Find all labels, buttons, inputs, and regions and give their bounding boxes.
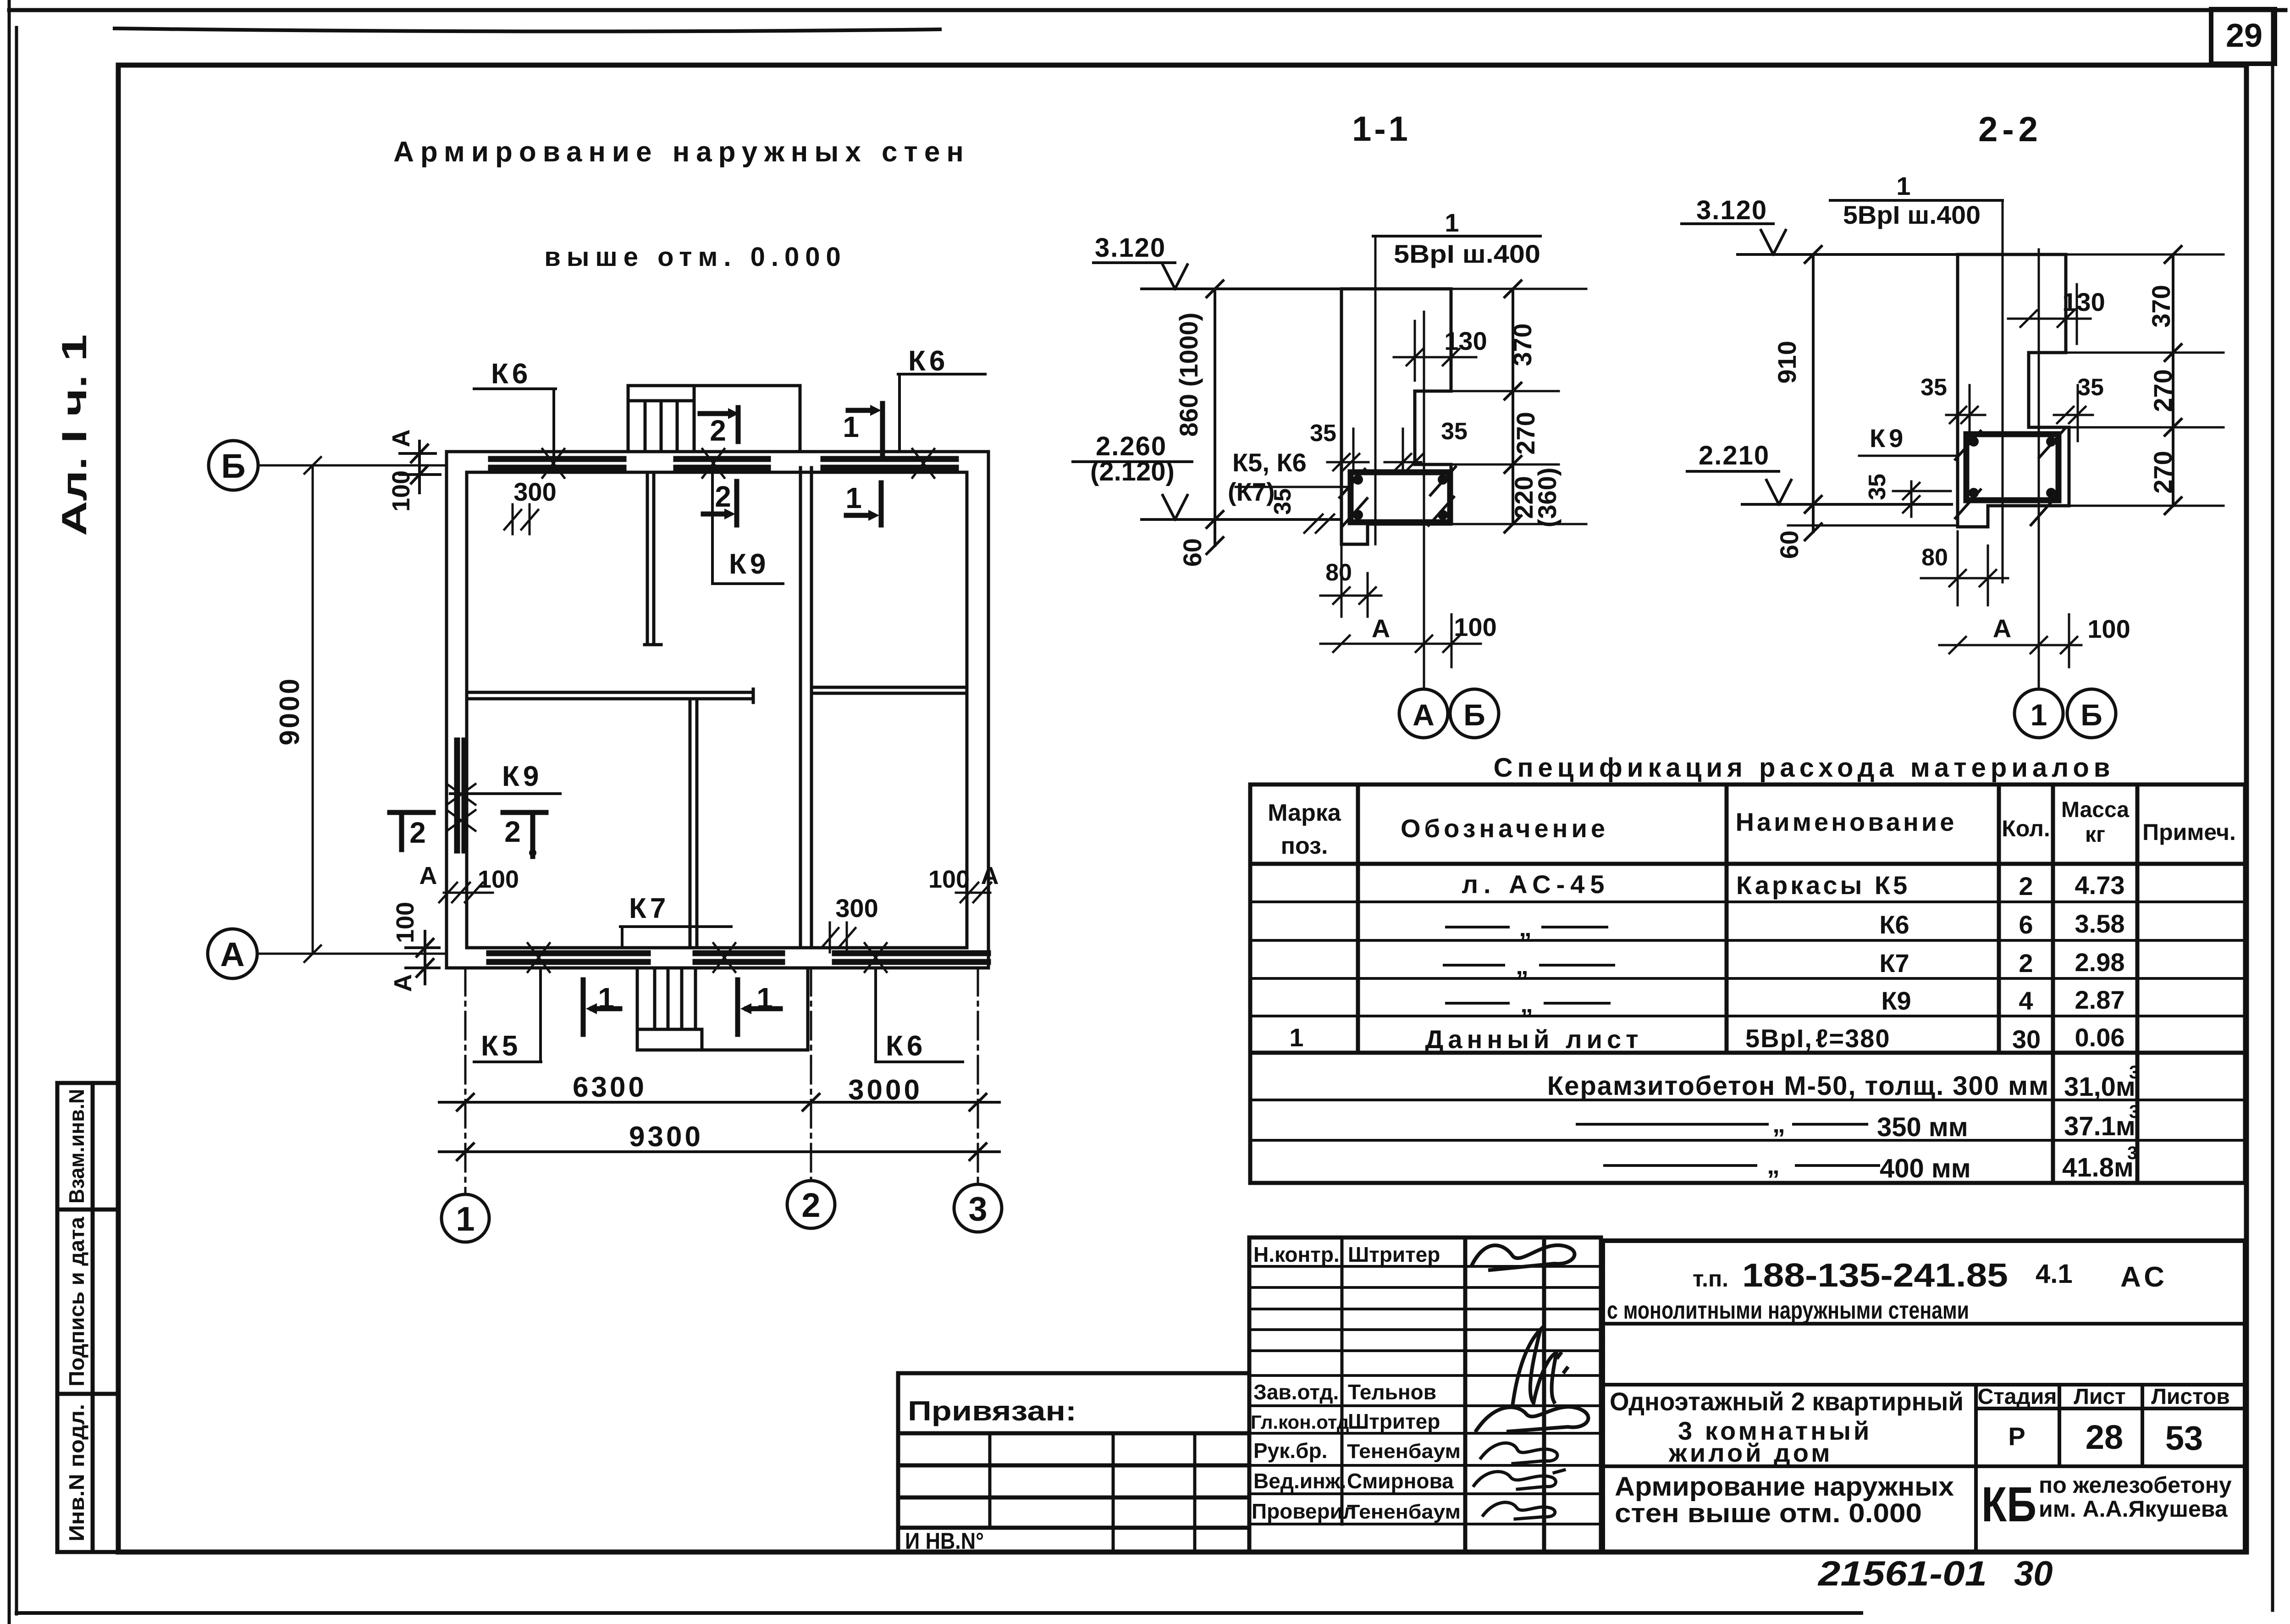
svg-text:100: 100 (387, 470, 415, 512)
svg-text:1: 1 (1445, 208, 1459, 237)
svg-text:Одноэтажный 2 квартирный: Одноэтажный 2 квартирный (1610, 1387, 1964, 1416)
svg-text:3.120: 3.120 (1696, 195, 1767, 225)
svg-text:Армирование наружных стен: Армирование наружных стен (393, 136, 970, 168)
section mark 1 bottom right (738, 980, 780, 1034)
svg-text:(360): (360) (1533, 468, 1562, 528)
svg-text:К9: К9 (729, 548, 769, 580)
svg-text:К7: К7 (629, 893, 669, 924)
section mark 2 top inside (703, 481, 737, 525)
svg-text:2: 2 (801, 1186, 820, 1224)
row 2 ditto / К6 / 6 / 3.58 (1446, 926, 1607, 928)
svg-text:Спецификация расхода материало: Спецификация расхода материалов (1494, 753, 2115, 783)
wall section outline 1-1 (1341, 289, 1451, 544)
bottom porch box (637, 968, 808, 1050)
top porch box (628, 386, 800, 452)
label K9 left (450, 761, 560, 794)
svg-text:300: 300 (835, 894, 878, 922)
left dim chain 1-1 (1207, 281, 1223, 554)
axis circle 3 (954, 1184, 1002, 1232)
svg-text:130: 130 (1444, 326, 1487, 355)
svg-text:Н.контр.: Н.контр. (1253, 1243, 1340, 1266)
svg-text:А: А (1372, 614, 1390, 643)
svg-text:Б: Б (1463, 698, 1485, 732)
svg-text:Стадия: Стадия (1978, 1385, 2057, 1409)
rebar bars left wall (457, 740, 464, 851)
rebar position line 1 in section 2-2 (2002, 200, 2004, 582)
svg-text:60: 60 (1775, 530, 1804, 559)
signature squiggle proveril (1483, 1502, 1555, 1519)
svg-text:по железобетону: по железобетону (2039, 1472, 2232, 1498)
svg-text:350 мм: 350 мм (1877, 1112, 1968, 1142)
section mark 2 top outside (700, 408, 739, 442)
svg-text:35: 35 (1310, 420, 1336, 447)
svg-text:А: А (387, 430, 415, 447)
signature squiggle N.kontr (1472, 1245, 1574, 1270)
svg-text:1: 1 (1289, 1023, 1303, 1052)
svg-text:60: 60 (1178, 538, 1207, 567)
svg-text:370: 370 (1508, 323, 1537, 366)
dim 80 2-2 (1921, 531, 2008, 605)
svg-text:100: 100 (928, 866, 970, 893)
wall inner rectangle (467, 472, 967, 948)
svg-text:80: 80 (1921, 544, 1948, 571)
svg-text:2.87: 2.87 (2075, 985, 2125, 1014)
svg-text:2: 2 (409, 816, 426, 849)
right dim chain 2-2 (2066, 246, 2224, 514)
svg-text:л. АС-45: л. АС-45 (1462, 870, 1610, 899)
partition stub top (645, 472, 661, 645)
svg-text:2: 2 (2019, 872, 2033, 900)
row 3 ditto / К7 / 2 / 2.98 (1444, 964, 1614, 967)
svg-text:Тельнов: Тельнов (1348, 1380, 1436, 1404)
rebar cage 1-1 (1340, 467, 1456, 527)
elevation 2.260 (2.120) 1-1 (1073, 431, 1341, 519)
svg-text:Наименование: Наименование (1736, 807, 1957, 836)
svg-text:К6: К6 (886, 1030, 926, 1062)
section mark 1 top inside (846, 483, 881, 525)
svg-text:2: 2 (504, 815, 521, 848)
dim 35 left 1-1 (1310, 420, 1368, 472)
svg-text:Данный лист: Данный лист (1425, 1025, 1643, 1054)
svg-text:А: А (419, 862, 437, 889)
rebar cage 2-2 (1955, 429, 2064, 525)
svg-text:К6: К6 (908, 345, 949, 377)
axis circle 2 (787, 1181, 835, 1228)
svg-text:Масса: Масса (2061, 798, 2129, 822)
svg-text:35: 35 (1920, 374, 1947, 401)
svg-text:53: 53 (2165, 1419, 2203, 1457)
svg-text:1: 1 (756, 982, 773, 1015)
svg-text:35: 35 (2077, 374, 2104, 401)
dim 130 2-2 (2008, 284, 2105, 344)
svg-text:(К7): (К7) (1228, 477, 1275, 506)
svg-text:3: 3 (968, 1190, 987, 1228)
svg-text:3: 3 (2127, 1143, 2137, 1163)
svg-text:2: 2 (715, 480, 731, 513)
label K5 bottom-left (474, 968, 541, 1062)
svg-text:860 (1000): 860 (1000) (1174, 313, 1203, 437)
svg-text:4: 4 (2019, 986, 2033, 1015)
wall outer rectangle (447, 452, 988, 968)
axis circle B section 1-1 (1450, 689, 1499, 738)
svg-text:5ВрI ш.400: 5ВрI ш.400 (1394, 239, 1540, 268)
svg-text:1-1: 1-1 (1352, 110, 1411, 149)
svg-text:3: 3 (2129, 1062, 2139, 1083)
label K6 top-right (898, 345, 985, 452)
svg-text:К6: К6 (1879, 910, 1909, 939)
svg-text:Гл.кон.отд: Гл.кон.отд (1251, 1411, 1349, 1433)
svg-text:Штритер: Штритер (1348, 1243, 1440, 1266)
section mark 1 top outside (848, 403, 883, 454)
svg-text:Б: Б (2080, 698, 2102, 732)
svg-text:АС: АС (2120, 1261, 2168, 1293)
mid-left horizontal wall (467, 689, 753, 702)
svg-text:К9: К9 (1881, 986, 1911, 1015)
svg-text:188-135-241.85: 188-135-241.85 (1742, 1257, 2008, 1294)
dim A 100 bottom 2-2 (1939, 614, 2130, 667)
svg-text:300: 300 (513, 477, 556, 506)
mid-right horizontal wall (811, 687, 967, 693)
bottom dimension line 6300/3000 (439, 1094, 999, 1110)
svg-text:1: 1 (456, 1200, 475, 1238)
svg-text:6300: 6300 (573, 1072, 647, 1103)
svg-text:100: 100 (478, 866, 519, 893)
svg-text:21561-01: 21561-01 (1817, 1554, 1987, 1593)
svg-text:Лист: Лист (2074, 1385, 2125, 1409)
svg-text:Подпись и дата: Подпись и дата (65, 1217, 88, 1386)
svg-text:т.п.: т.п. (1693, 1266, 1728, 1292)
page scan right edge line (2271, 10, 2274, 1610)
svg-text:стен выше отм. 0.000: стен выше отм. 0.000 (1615, 1498, 1922, 1528)
dim 80 1-1 (1320, 546, 1381, 617)
svg-text:ℓ=380: ℓ=380 (1815, 1024, 1891, 1053)
svg-text:Вед.инж.: Вед.инж. (1253, 1469, 1346, 1493)
svg-text:КБ: КБ (1981, 1476, 2036, 1532)
svg-text:9000: 9000 (274, 677, 305, 745)
svg-text:Марка: Марка (1268, 800, 1341, 826)
left dim chain 2-2 (1788, 246, 1958, 540)
svg-text:А: А (1993, 614, 2011, 643)
section mark 1 bottom left (583, 980, 620, 1034)
bottom stair treads (637, 968, 702, 1050)
elevation 2.210 2-2 (1687, 441, 1952, 504)
label K7 bottom-center (620, 893, 731, 947)
svg-text:37.1м: 37.1м (2064, 1111, 2135, 1141)
inner dim 100 A bottom-right (928, 862, 999, 902)
svg-text:1: 1 (2031, 698, 2047, 732)
bottom line of title block area (898, 1550, 2245, 1554)
signature squiggle gl.kon big (1476, 1407, 1588, 1431)
svg-text:2.210: 2.210 (1699, 441, 1770, 470)
svg-text:Смирнова: Смирнова (1347, 1469, 1454, 1493)
svg-text:Обозначение: Обозначение (1401, 814, 1609, 843)
central wall line 2 (810, 468, 813, 948)
svg-text:9300: 9300 (629, 1121, 703, 1153)
svg-text:1: 1 (845, 481, 862, 514)
top porch stair treads (628, 386, 694, 452)
label K6 bottom-right (876, 968, 963, 1062)
rebar position line 1 in section 1-1 (1374, 236, 1377, 544)
svg-text:жилой дом: жилой дом (1668, 1438, 1833, 1467)
svg-text:Привязан:: Привязан: (908, 1396, 1076, 1426)
axis B row: circle and line (209, 441, 258, 490)
svg-text:2: 2 (2019, 949, 2033, 978)
svg-text:910: 910 (1772, 341, 1801, 383)
page scan top second line (115, 28, 940, 32)
svg-text:270: 270 (1511, 412, 1540, 454)
svg-text:30: 30 (2012, 1025, 2041, 1054)
svg-text:100: 100 (1454, 613, 1496, 641)
signature squiggle ved.inzh (1474, 1470, 1564, 1489)
svg-text:Тененбаум: Тененбаум (1347, 1440, 1461, 1463)
label K9 top-center (712, 472, 783, 584)
axis circle 1 section 2-2 (2014, 689, 2063, 738)
svg-text:Рук.бр.: Рук.бр. (1253, 1439, 1327, 1463)
svg-text:35: 35 (1269, 488, 1296, 515)
svg-text:1: 1 (1896, 171, 1910, 200)
svg-text:3.120: 3.120 (1095, 233, 1166, 263)
svg-text:К9: К9 (1870, 424, 1907, 453)
page scan bottom edge line (17, 1611, 1861, 1615)
svg-text:28: 28 (2086, 1418, 2123, 1456)
dimension 300 top-left (504, 477, 557, 534)
svg-text:им. А.А.Якушева: им. А.А.Якушева (2039, 1496, 2228, 1522)
page scan left edge double line (9, 0, 17, 1624)
svg-text:2.98: 2.98 (2075, 948, 2125, 977)
svg-text:„: „ (1519, 913, 1532, 942)
section mark 2 left inside (503, 812, 546, 856)
svg-text:Примеч.: Примеч. (2142, 819, 2236, 845)
svg-text:0.06: 0.06 (2075, 1023, 2125, 1052)
dim 35 left 2-2 (1920, 374, 1985, 441)
right dim chain 1-1 (1451, 281, 1586, 532)
svg-text:6: 6 (2019, 910, 2033, 939)
svg-text:И НВ.N°: И НВ.N° (905, 1528, 984, 1554)
vertical partition lower-center (690, 699, 697, 948)
axis mark A top-left with 100 (387, 430, 440, 512)
rebar bars bottom wall (489, 953, 648, 962)
svg-text:4.1: 4.1 (2036, 1259, 2073, 1289)
svg-text:31,0м: 31,0м (2064, 1072, 2135, 1102)
svg-text:А: А (389, 974, 417, 992)
svg-text:Тененбаум: Тененбаум (1347, 1501, 1461, 1523)
svg-text:К5: К5 (481, 1030, 521, 1062)
svg-text:„: „ (1520, 989, 1533, 1018)
elevation 3.120 2-2 (1682, 195, 1958, 254)
svg-text:Армирование наружных: Армирование наружных (1615, 1472, 1954, 1502)
big title box (1603, 1241, 2245, 1552)
axis line A in section 1-1 (1423, 312, 1425, 689)
privyazan box (898, 1373, 1249, 1552)
axis line 1 in section 2-2 (2038, 249, 2040, 689)
svg-text:Каркасы К5: Каркасы К5 (1736, 871, 1910, 900)
svg-text:41.8м: 41.8м (2062, 1153, 2134, 1182)
axis circle 1 (441, 1194, 489, 1242)
svg-text:Зав.отд.: Зав.отд. (1253, 1380, 1339, 1404)
svg-text:Взам.инв.N: Взам.инв.N (65, 1089, 88, 1204)
svg-text:270: 270 (2148, 369, 2177, 412)
svg-text:К5, К6: К5, К6 (1232, 448, 1307, 477)
left sidebar stamp boxes (57, 1083, 118, 1552)
vertical dimension 9000 (304, 457, 321, 962)
axis mark A bottom-left with 100 (389, 902, 439, 992)
svg-text:Кол.: Кол. (2002, 816, 2050, 841)
svg-text:„: „ (1772, 1109, 1785, 1138)
svg-text:35: 35 (1864, 474, 1891, 500)
dim 35 right 2-2 (2054, 374, 2104, 441)
svg-text:с монолитными наружными стенам: с монолитными наружными стенами (1607, 1297, 1969, 1324)
central wall line 1 (799, 468, 802, 948)
svg-text:К6: К6 (491, 358, 531, 390)
signature squiggle zav.otd big (1513, 1330, 1567, 1403)
rebar cross marks (447, 449, 934, 972)
dimension 300 bottom-right (822, 894, 878, 952)
svg-text:А: А (220, 935, 244, 973)
svg-text:Ал. I ч. 1: Ал. I ч. 1 (55, 334, 94, 536)
bottom dimension line 9300 (439, 1143, 999, 1160)
svg-text:100: 100 (392, 902, 419, 943)
table grid (1250, 784, 2245, 1183)
rebar bars top wall (457, 459, 988, 962)
svg-text:Р: Р (2008, 1422, 2025, 1451)
svg-text:3: 3 (2129, 1102, 2139, 1122)
svg-text:Инв.N подл.: Инв.N подл. (65, 1404, 88, 1541)
svg-text:„: „ (1516, 951, 1529, 980)
elevation 3.120 1-1 (1093, 233, 1341, 289)
svg-text:кг: кг (2085, 823, 2105, 847)
label K6 top-left (474, 358, 556, 468)
svg-text:100: 100 (2087, 614, 2130, 643)
svg-text:Б: Б (221, 447, 245, 485)
svg-text:Проверил: Проверил (1252, 1499, 1356, 1523)
inner dim A 100 bottom-left (419, 862, 519, 902)
axis circle B section 2-2 (2067, 689, 2116, 738)
svg-text:270: 270 (2148, 451, 2177, 493)
section mark 2 left outside (390, 812, 433, 850)
leader to cage 1-1 (1236, 486, 1351, 488)
svg-text:400 мм: 400 мм (1880, 1154, 1971, 1183)
svg-text:Штритер: Штритер (1348, 1409, 1440, 1433)
svg-text:130: 130 (2062, 287, 2105, 316)
row 7: ditto 350мм 37.1м3 (1577, 1123, 1867, 1126)
svg-text:К7: К7 (1879, 949, 1909, 978)
dim 35 right 1-1 (1385, 418, 1468, 472)
page scan top edge line (9, 8, 2285, 12)
svg-text:2: 2 (710, 414, 726, 447)
svg-text:поз.: поз. (1281, 833, 1328, 859)
svg-text:1: 1 (843, 410, 859, 443)
sheet number box 29 (2211, 9, 2275, 64)
svg-text:3.58: 3.58 (2075, 909, 2125, 938)
svg-text:Керамзитобетон М-50, толщ. 30: Керамзитобетон М-50, толщ. 300 мм (1547, 1071, 2049, 1101)
svg-text:3000: 3000 (848, 1074, 922, 1106)
svg-text:80: 80 (1325, 559, 1352, 586)
svg-text:35: 35 (1441, 418, 1468, 445)
signature table grid (1249, 1237, 1601, 1552)
svg-text:30: 30 (2014, 1554, 2053, 1593)
svg-text:2-2: 2-2 (1978, 110, 2042, 149)
svg-text:А: А (1413, 698, 1435, 732)
svg-text:1: 1 (598, 982, 614, 1015)
svg-text:выше отм. 0.000: выше отм. 0.000 (544, 242, 847, 272)
dim A 100 bottom 1-1 (1320, 613, 1497, 667)
wall section outline 2-2 (1958, 254, 2069, 527)
svg-text:„: „ (1767, 1150, 1780, 1179)
axis extension verticals to circles (465, 968, 978, 1194)
svg-text:5ВрI,: 5ВрI, (1745, 1024, 1813, 1053)
svg-text:4.73: 4.73 (2075, 871, 2125, 900)
axis A row: circle and line (208, 929, 257, 978)
svg-text:К9: К9 (502, 761, 542, 792)
svg-text:Листов: Листов (2151, 1385, 2230, 1409)
svg-text:5ВрI ш.400: 5ВрI ш.400 (1843, 200, 1981, 229)
row 4 ditto / К9 / 4 / 2.87 (1446, 1002, 1609, 1005)
signature squiggle ruk.br (1481, 1443, 1557, 1464)
axis circle A section 1-1 (1399, 689, 1448, 738)
row 8: ditto 400мм 41.8м3 (1605, 1164, 1879, 1167)
svg-text:370: 370 (2147, 285, 2175, 327)
svg-text:29: 29 (2226, 17, 2262, 54)
dim 130 1-1 (1394, 321, 1487, 381)
leader K9 to wall 2-2 (1859, 455, 1958, 457)
